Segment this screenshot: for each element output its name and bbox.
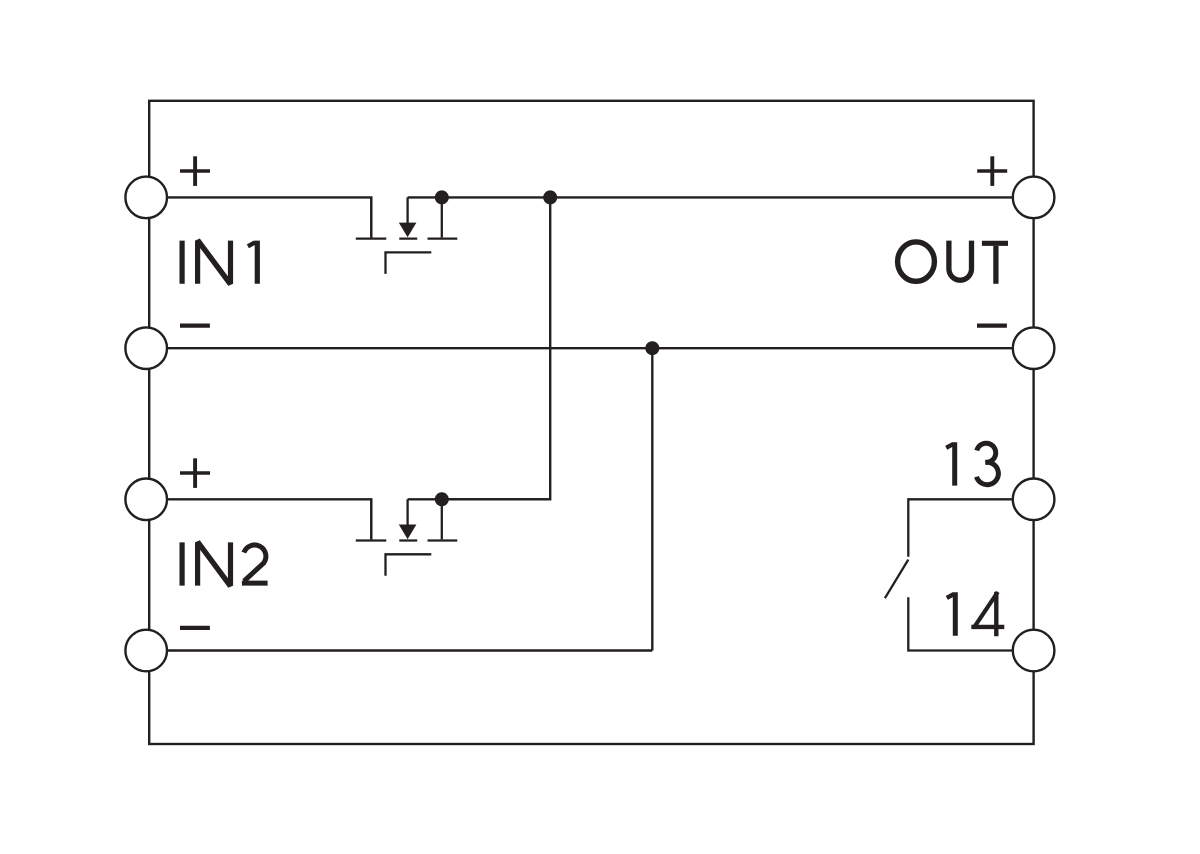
label: - (OUT) [977,323,1007,327]
wire: IN2+ to Q2 source [168,499,371,539]
junction dot: Q2 drain [435,492,449,506]
transistor Q1 (MOSFET, IN1 channel) [356,197,458,274]
terminal IN1- [125,327,167,369]
label: OUT [898,241,1008,284]
label: 14 [947,592,1005,636]
label: IN1 [182,239,257,286]
terminal OUT+ [1013,177,1055,219]
wire: outer loop border [149,101,1033,744]
terminal IN2+ [125,479,167,521]
relay contact K1 (13/14) [885,499,1012,650]
wire: node B vertical (OUT- down to IN2-) [651,348,653,650]
wire: node A vertical (Q1 drain bus down to Q2 drain) [442,197,550,499]
transistor Q2 substrate arrow [399,525,417,540]
junction dot: Q1 drain [435,190,449,204]
wire: Q1 drain to OUT+ [408,196,1012,198]
wire: Q2 drain/arrow top horizontal [408,498,551,500]
label: - (IN2) [180,626,210,630]
terminal IN1+ [125,177,167,219]
junction dot: node B on OUT- line [645,341,659,355]
wire: IN1+ to Q1 source [168,197,371,237]
wire: IN1- to OUT- [168,347,1012,349]
terminal 14 [1013,630,1055,672]
label: IN2 [182,540,268,587]
transistor Q1 substrate arrow [399,223,417,238]
label: + (IN2) [180,458,210,488]
junction dot: node A on OUT+ line [543,190,557,204]
label: - (IN1) [180,323,210,327]
wire: IN2- horizontal [168,649,652,651]
terminal 13 [1013,479,1055,521]
terminal IN2- [125,630,167,672]
transistor Q2 (MOSFET, IN2 channel) [356,499,458,576]
label: + (IN1) [180,156,210,186]
label: + (OUT) [977,156,1007,186]
terminal OUT- [1013,327,1055,369]
label: 13 [946,442,998,485]
